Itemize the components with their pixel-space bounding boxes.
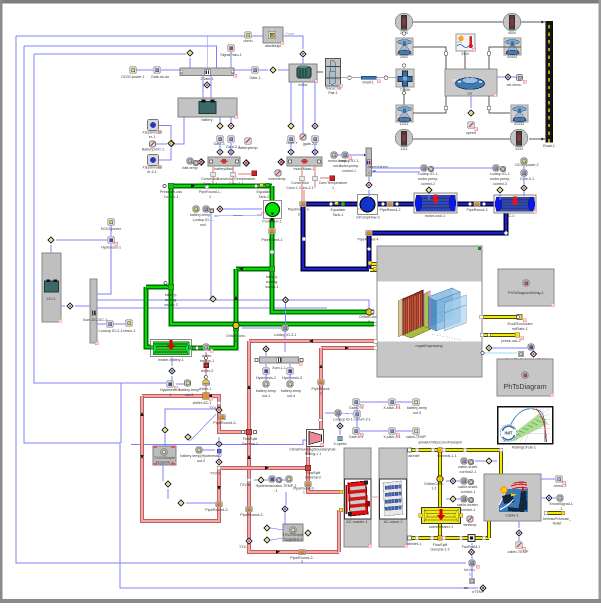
svg-text:Int-fan-: Int-fan- [464, 568, 476, 572]
arrow [208, 394, 212, 398]
pipe green left [169, 186, 174, 287]
node diamond [164, 480, 172, 488]
label PipeRound-2 comp [246, 506, 253, 511]
block Fan_Shaft [518, 351, 523, 356]
pipe red evap left [142, 396, 306, 521]
block Lookup Xum-2-1 [335, 410, 341, 416]
block ohmu-2 [556, 476, 562, 482]
svg-text:Lookup ID-2-1ohmu-1: Lookup ID-2-1ohmu-1 [99, 329, 136, 333]
source red square [330, 176, 335, 181]
label PipeRound-2-3 [299, 549, 306, 554]
pipe yellow stub1 [370, 262, 377, 266]
block Convection Conv-1 [300, 176, 305, 181]
pipe green pump down [270, 186, 275, 269]
wheel 1111 [395, 129, 412, 146]
wire [523, 164, 525, 170]
svg-text:battery-temp: battery-temp [281, 389, 301, 393]
svg-text:AC-slave-1: AC-slave-1 [384, 520, 403, 524]
node diamond [304, 529, 312, 537]
svg-text:1-2: 1-2 [432, 487, 437, 491]
node diamond [227, 122, 235, 130]
wire [360, 401, 388, 403]
block chiller-AC-1 [203, 393, 209, 399]
node blue diamond [168, 367, 176, 375]
pipe red condenser leg upper [319, 348, 323, 430]
svg-text:motor-pump-: motor-pump- [490, 177, 511, 181]
svg-text:motor-pump-: motor-pump- [339, 164, 360, 168]
wire [131, 440, 306, 445]
block BatterySOC-1 [150, 141, 156, 147]
pipe green from switch2 down [171, 287, 374, 324]
svg-text:RatingCircle-1: RatingCircle-1 [512, 446, 536, 450]
svg-text:out-5: out-5 [413, 411, 421, 415]
svg-text:motorMass-1: motorMass-1 [294, 167, 315, 171]
svg-text:batterytemp: batterytemp [239, 146, 258, 150]
wire [446, 480, 449, 482]
arrow [265, 466, 269, 470]
block battery-temp out-2 [196, 447, 202, 453]
wire [238, 173, 251, 175]
wire [56, 239, 107, 241]
wire [341, 77, 347, 79]
block Xum-DC-DC-1 [90, 279, 97, 343]
node airinlet-1 [408, 536, 412, 540]
wire [96, 307, 327, 309]
svg-text:P=1: P=1 [357, 208, 363, 212]
node OrificeConv-1-2 [437, 476, 443, 482]
svg-text:44444: 44444 [507, 55, 517, 59]
port yellow right [480, 315, 483, 318]
svg-text:General-1-2: General-1-2 [430, 548, 449, 552]
arrow [276, 550, 280, 554]
wire [242, 327, 281, 329]
wire [120, 383, 122, 443]
wire [278, 69, 289, 71]
pipe green branch1 [272, 269, 374, 312]
node diamond [299, 50, 307, 58]
block ClimaFlow compressor funnel [307, 430, 324, 447]
wire [159, 126, 171, 140]
svg-text:airinlet-1: airinlet-1 [407, 542, 422, 546]
wire [290, 82, 292, 122]
wheel 4004 [503, 13, 520, 30]
wire [234, 69, 252, 71]
svg-text:airinlet: airinlet [408, 454, 420, 458]
svg-text:AC-master-1: AC-master-1 [346, 520, 368, 524]
svg-text:PipeRound-2-: PipeRound-2- [240, 513, 264, 517]
signal source ohmu [245, 32, 252, 39]
brake 11111 [396, 105, 413, 122]
differential T3456 [396, 69, 414, 87]
node diamond [227, 148, 235, 156]
svg-text:FlowSplit: FlowSplit [433, 543, 448, 547]
svg-text:2: 2 [320, 392, 322, 396]
wire [413, 21, 503, 23]
pipe red top pair upper [249, 339, 374, 343]
pipe yellow EcoE [481, 315, 517, 319]
wheel 2000 [395, 13, 412, 30]
wire [489, 96, 510, 113]
svg-text:11111: 11111 [400, 122, 409, 126]
node diamond [449, 477, 457, 485]
pipe green h287 [146, 285, 171, 290]
label PipeRound-1-1 [205, 185, 208, 188]
wire [176, 383, 184, 385]
block Lookup ID-2-1 [107, 321, 113, 327]
wire [521, 21, 545, 23]
wire [110, 225, 112, 236]
wire red drop [303, 190, 305, 201]
wire [290, 143, 292, 156]
node port [463, 448, 466, 451]
svg-text:Gate-7-1: Gate-7-1 [349, 406, 363, 410]
wire red link [371, 496, 379, 498]
svg-text:3333: 3333 [515, 147, 523, 151]
block Lookup ID-1 ctrl-1 [342, 152, 348, 158]
svg-text:regasEnjamsang: regasEnjamsang [416, 344, 443, 348]
block Gate-2-1 [228, 136, 235, 143]
node diamond [287, 122, 295, 130]
svg-text:control-2: control-2 [421, 182, 435, 186]
node vel-ohmu [497, 76, 504, 78]
arrow [140, 455, 144, 459]
svg-text:cabin-heater-1: cabin-heater-1 [429, 525, 453, 529]
node diamond [216, 205, 224, 213]
svg-text:2: 2 [298, 213, 300, 217]
pipe red evap loop [142, 396, 249, 432]
node port [459, 536, 462, 539]
node red diamond [66, 302, 74, 310]
svg-text:1111: 1111 [400, 147, 407, 151]
wire [61, 305, 65, 307]
svg-text:PipeRound-1-: PipeRound-1- [288, 208, 311, 212]
transmission TransCha Pair-1 [326, 59, 341, 87]
svg-text:cabin-heater-: cabin-heater- [457, 503, 480, 507]
wire [207, 36, 209, 68]
wire [403, 87, 405, 105]
pipe red condenser leg lower [308, 446, 343, 492]
arrow [191, 184, 195, 188]
node diamond [425, 186, 433, 194]
svg-text:heater-battery-1: heater-battery-1 [158, 358, 184, 362]
wire [541, 478, 555, 480]
port AC red [339, 490, 342, 493]
svg-text:2: 2 [235, 339, 237, 343]
pipe yellow bottom [409, 536, 489, 540]
svg-text:cabin-TEMP: cabin-TEMP [508, 550, 529, 554]
label PipeRound-1-2 [300, 201, 307, 206]
wire [518, 521, 520, 528]
wire [413, 138, 510, 140]
block battery-temp mul [193, 206, 199, 212]
pipe yellow press-out [482, 333, 515, 337]
block motor-temp-out-1 [331, 152, 337, 158]
svg-text:sat: sat [464, 586, 469, 590]
svg-text:General-2: General-2 [305, 476, 321, 480]
wire [428, 193, 430, 200]
block battery-temp out-3 [185, 380, 191, 386]
svg-text:Hysteresis-3: Hysteresis-3 [282, 376, 302, 380]
svg-text:PipeRound-4: PipeRound-4 [358, 238, 379, 242]
node diamond [485, 457, 493, 465]
node diamond [161, 426, 169, 434]
wire [302, 58, 304, 64]
block X-stich-1-1 [389, 399, 395, 405]
brake 44444 [504, 38, 521, 55]
svg-text:FlowSplit: FlowSplit [306, 471, 321, 475]
block PhTsDiagramKebig-1 [498, 269, 554, 306]
arrow [345, 346, 349, 350]
brake 33333 [511, 105, 528, 122]
svg-text:car: car [468, 92, 474, 96]
svg-text:battery: battery [202, 118, 213, 122]
wire chiller red [205, 352, 207, 393]
svg-text:ohmu-2: ohmu-2 [554, 484, 567, 488]
svg-text:TXV-2: TXV-2 [209, 406, 219, 410]
cabin image [499, 489, 528, 512]
pipe blue down-left [303, 204, 369, 269]
svg-text:switch-2: switch-2 [164, 303, 177, 307]
block Hysteresis-5 [167, 381, 173, 387]
svg-text:battery-: battery- [165, 293, 178, 297]
wire [325, 412, 334, 414]
svg-text:Conv-1-1: Conv-1-1 [164, 195, 179, 199]
svg-text:cabin-shaft-: cabin-shaft- [458, 465, 479, 469]
wire [471, 566, 473, 578]
svg-text:airinlet/OrificeConv/FlowSplit: airinlet/OrificeConv/FlowSplit [418, 441, 461, 445]
svg-text:X-speed: X-speed [333, 442, 346, 446]
svg-text:Relief: Relief [553, 522, 562, 526]
svg-text:control2-1: control2-1 [460, 470, 477, 474]
port red regas [374, 340, 377, 343]
svg-text:battery-temp(Hysteresis-2: battery-temp(Hysteresis-2 [180, 454, 221, 458]
svg-text:-1: -1 [274, 489, 277, 493]
wire [285, 304, 287, 325]
pipe blue main2 [378, 202, 494, 207]
node diamond [167, 140, 175, 148]
svg-text:Target(H)-2: Target(H)-2 [155, 461, 173, 465]
block ConvectionTemperature Conv-2-2 [231, 172, 236, 177]
block PhTsDiagram [497, 359, 553, 396]
node diamond [496, 186, 504, 194]
node TXV-2 [217, 401, 221, 405]
wire [265, 364, 267, 367]
svg-text:-1: -1 [168, 393, 171, 397]
block battery-temp out-1 [263, 381, 269, 387]
wire bus L1 [16, 36, 466, 563]
icon fantemp [467, 516, 473, 522]
block Gate-7-1 [353, 399, 359, 405]
arrow [239, 267, 243, 271]
wire [136, 69, 153, 71]
node TXV diamond column [215, 440, 223, 448]
svg-text:chiller-1: chiller-1 [199, 387, 212, 391]
svg-text:press-out-2: press-out-2 [501, 339, 520, 343]
pipe red top pair lower [321, 346, 374, 350]
wire [189, 58, 191, 68]
svg-text:Gate-1: Gate-1 [250, 76, 261, 80]
node diamond [282, 296, 290, 304]
svg-text:33333: 33333 [514, 122, 524, 126]
source red square [252, 171, 257, 176]
svg-text:PipeRound-2: PipeRound-2 [380, 208, 401, 212]
block cabin-shaft-control-1 [461, 478, 467, 484]
svg-text:1: 1 [469, 573, 471, 577]
block batteryMass [208, 157, 240, 166]
node FlowSplit General-1-1 [431, 448, 434, 451]
svg-text:chiller-2: chiller-2 [201, 369, 214, 373]
block 2Gate-1 [180, 68, 234, 76]
label PipeRound-1 [269, 228, 276, 233]
pipe red AC bottom leg [337, 510, 341, 552]
wire [493, 347, 527, 349]
svg-text:er-2-1: er-2-1 [147, 170, 157, 174]
block Lookup ID-6-1 [528, 344, 534, 350]
node diamond [257, 476, 265, 484]
svg-text:Cabin-1: Cabin-1 [505, 514, 518, 518]
svg-text:cabin-TEMP: cabin-TEMP [406, 435, 426, 439]
block XtepSimulater-2-1 [148, 155, 159, 166]
node red diamond [365, 181, 373, 189]
svg-text:cooling-: cooling- [165, 298, 178, 302]
battery block [178, 98, 237, 117]
svg-text:control-1: control-1 [461, 508, 476, 512]
label PipeRound-2 [387, 201, 394, 206]
node Equalizer Tank-1 [329, 202, 332, 205]
wire [265, 374, 267, 380]
wire [446, 498, 449, 500]
port green regas [374, 322, 378, 326]
block motortempIcon [300, 134, 306, 140]
block DCDCpower-1 [130, 67, 137, 74]
block Gate-9-1 [521, 170, 527, 176]
svg-text:1: 1 [368, 171, 370, 175]
svg-text:General-1-1: General-1-1 [437, 454, 456, 458]
wire [337, 154, 341, 156]
block XtepSimulater-1 [148, 120, 159, 131]
block chiller-2 [204, 363, 209, 368]
wire [464, 51, 466, 69]
svg-text:Gate-3: Gate-3 [214, 142, 225, 146]
wire convection red [301, 166, 303, 177]
svg-text:TXV-: TXV- [239, 545, 248, 549]
svg-text:mul: mul [200, 223, 206, 227]
motor block [289, 64, 317, 82]
svg-text:Pair-1: Pair-1 [328, 91, 338, 95]
wire [489, 47, 521, 69]
wire [338, 416, 340, 422]
node diamond [485, 344, 493, 352]
svg-text:cabin-shaft-: cabin-shaft- [458, 485, 479, 489]
node TXV-B [247, 478, 251, 482]
port blue v [302, 237, 305, 240]
wire [202, 76, 204, 98]
radiator heater-battery-1 [151, 340, 192, 357]
svg-text:Hysteresis-5: Hysteresis-5 [160, 388, 180, 392]
svg-text:Target(H)-1: Target(H)-1 [284, 538, 302, 542]
block chiller-battery-1 [195, 346, 198, 349]
node diamond [287, 148, 295, 156]
svg-text:speed: speed [466, 131, 476, 135]
pipe red compressor column [249, 341, 339, 552]
node blue diamond [281, 505, 289, 513]
svg-text:battery-temp: battery-temp [179, 388, 199, 392]
wire bus L3 [34, 54, 166, 383]
block battery-temp out-5 [413, 399, 419, 405]
svg-text:motor-cool-1: motor-cool-1 [425, 214, 445, 218]
block cabin-TEMP sensor [516, 542, 522, 548]
wire [230, 51, 232, 68]
svg-text:cooling-: cooling- [266, 280, 279, 284]
block ConvTemp [313, 176, 318, 181]
svg-text:3: 3 [301, 560, 303, 564]
node black diamond [479, 584, 487, 592]
node diamond [269, 66, 277, 74]
node FlowSplit General-1 [246, 429, 251, 434]
block AC-slave-1 [379, 448, 407, 547]
svg-text:PressureLoss: PressureLoss [160, 190, 182, 194]
wire [165, 409, 216, 427]
node diamond [468, 548, 476, 556]
road Road-1 [546, 21, 553, 142]
svg-text:DC-1: DC-1 [506, 214, 514, 218]
arrow [247, 455, 251, 459]
node speed [470, 96, 472, 108]
svg-text:er-1: er-1 [149, 135, 155, 139]
svg-text:PipeRound-2-: PipeRound-2- [213, 421, 237, 425]
svg-text:ClimaFlowDrag/BoundaryKab-: ClimaFlowDrag/BoundaryKab- [289, 448, 337, 452]
block Gate-8-1 [353, 428, 359, 434]
block DCDCpower [108, 219, 114, 225]
wire [224, 208, 262, 210]
block Xum-1-1 [260, 357, 299, 363]
node FlowSplit General-2 [305, 465, 310, 470]
node FlowSplit General-1-2 [438, 536, 442, 540]
svg-text:Gate-do-do: Gate-do-do [151, 75, 169, 79]
svg-text:TXV-3: TXV-3 [210, 472, 220, 476]
svg-text:Xum-DC-DC-1: Xum-DC-DC-1 [83, 318, 108, 322]
svg-text:X-stich-2-1: X-stich-2-1 [383, 435, 400, 439]
block Gate-1 [252, 67, 259, 74]
node diamond [177, 499, 185, 507]
svg-text:XtepSimulat: XtepSimulat [142, 166, 161, 170]
label PipeRound-2 d [216, 501, 223, 506]
port [319, 418, 323, 422]
svg-text:battery-temp: battery-temp [407, 406, 427, 410]
node diamond [216, 148, 224, 156]
svg-text:batt-temp: batt-temp [182, 166, 197, 170]
svg-text:FanPosM-1: FanPosM-1 [462, 545, 481, 549]
block Hysteresis-1 [108, 237, 114, 243]
wire [97, 323, 106, 325]
node diamond [197, 158, 205, 166]
block Lookup ctrl-3 [493, 165, 499, 171]
block cab sensor [469, 578, 474, 583]
car block [445, 69, 497, 96]
block cabin-TEMP mid [413, 428, 419, 434]
svg-text:PipeRound-1: PipeRound-1 [262, 238, 283, 242]
svg-text:Hysteresis/cabin-TEMP-2: Hysteresis/cabin-TEMP-2 [256, 484, 297, 488]
node diamond [184, 433, 192, 441]
svg-text:out-2: out-2 [197, 459, 205, 463]
arrow [217, 486, 221, 490]
node press-out-2 [480, 333, 483, 336]
svg-text:edRate-1: edRate-1 [512, 327, 528, 331]
svg-text:OrificeConv-: OrificeConv- [226, 334, 247, 338]
svg-text:DCDCpower-2: DCDCpower-2 [515, 163, 538, 167]
block cabin-heater-control-1 [461, 496, 467, 502]
pipe green switch1 left [236, 267, 272, 272]
